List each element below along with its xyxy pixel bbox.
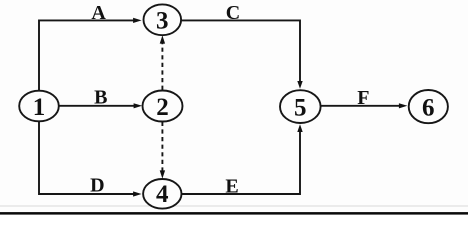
svg-text:1: 1 (33, 94, 46, 121)
svg-text:4: 4 (156, 181, 169, 208)
svg-text:B: B (94, 86, 107, 108)
svg-text:E: E (225, 175, 238, 197)
svg-text:2: 2 (156, 94, 169, 121)
svg-text:A: A (91, 2, 106, 24)
svg-text:F: F (357, 87, 369, 109)
svg-text:5: 5 (294, 94, 307, 121)
svg-text:D: D (90, 175, 104, 197)
svg-text:6: 6 (422, 94, 435, 121)
svg-text:C: C (226, 2, 240, 24)
svg-text:3: 3 (156, 8, 169, 35)
